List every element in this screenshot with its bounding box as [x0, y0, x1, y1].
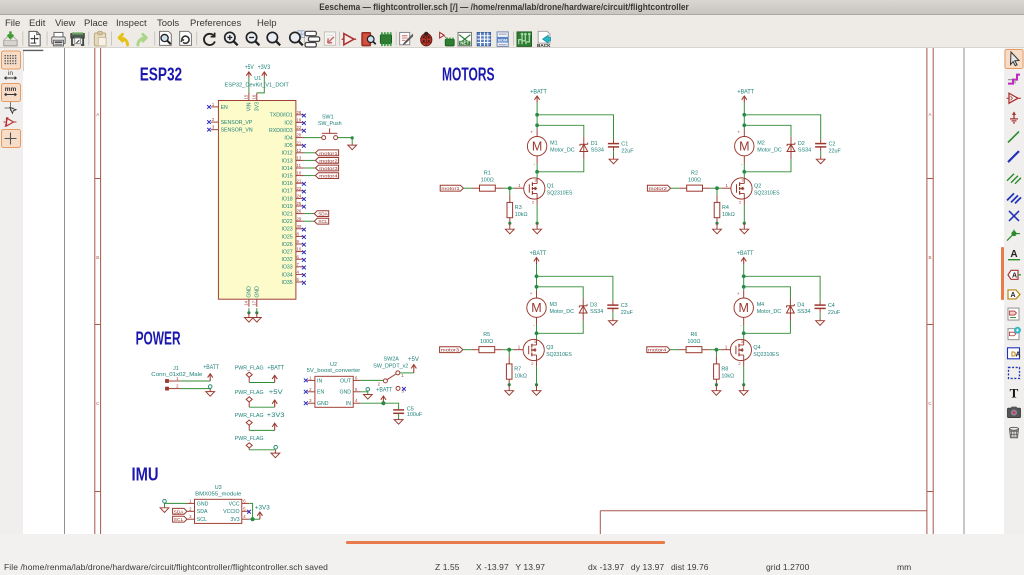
svg-text:1: 1 — [189, 498, 192, 503]
wire motor2 label to R2 — [671, 187, 687, 189]
svg-text:3: 3 — [534, 177, 536, 182]
svg-text:100uF: 100uF — [407, 412, 423, 418]
svg-text:motor1: motor1 — [319, 151, 338, 157]
wire motor3 label to R5 — [463, 349, 479, 351]
svg-text:10kΩ: 10kΩ — [722, 212, 735, 218]
svg-text:+: + — [530, 131, 533, 136]
svg-text:2: 2 — [189, 506, 192, 511]
ground below Q3 — [532, 385, 541, 396]
svg-text:C2: C2 — [829, 141, 836, 147]
svg-text:U2: U2 — [330, 362, 337, 368]
ground below Q4 — [739, 385, 748, 396]
power flag PWR_FLAG #2 — [235, 390, 264, 407]
wire Q2 source to ground — [743, 199, 746, 225]
wire Q1 source to ground — [536, 199, 539, 225]
junction +BATT/D2 node (motor 2) — [742, 123, 746, 127]
ground below C3 (motor 3) — [609, 318, 618, 325]
svg-text:2: 2 — [176, 384, 179, 389]
svg-text:TXD0/IO1: TXD0/IO1 — [270, 113, 293, 119]
svg-text:+: + — [737, 131, 740, 136]
wire +BATT rail motor 2 — [744, 103, 820, 145]
svg-text:IMU: IMU — [132, 464, 159, 484]
ground PWR_FLAG #4 — [271, 450, 280, 458]
no-connects U1 right pins — [302, 114, 306, 285]
transistor Q2 SQ2310ES — [731, 177, 780, 204]
svg-text:VCCIO: VCCIO — [223, 509, 239, 515]
motor M4 Motor_DC — [734, 292, 781, 329]
wire U3 VCC to +3V3 node — [249, 503, 252, 519]
svg-text:21: 21 — [297, 140, 302, 145]
svg-text:Motor_DC: Motor_DC — [550, 309, 575, 315]
svg-text:SCL: SCL — [318, 219, 328, 225]
junction +BATT/C1 node (motor 1) — [535, 113, 539, 117]
svg-text:3V3: 3V3 — [230, 517, 239, 523]
svg-text:A: A — [1016, 351, 1021, 358]
global label motor4 (driver) — [647, 347, 670, 354]
svg-text:IO34: IO34 — [281, 272, 292, 278]
svg-text:M3: M3 — [550, 302, 558, 308]
svg-text:3: 3 — [742, 177, 744, 182]
svg-text:1: 1 — [309, 375, 312, 380]
wire Q3 source to ground — [535, 361, 538, 387]
svg-text:+3V3: +3V3 — [255, 505, 270, 512]
svg-text:M: M — [531, 301, 541, 315]
junction motor/Q1 drain node — [535, 170, 539, 174]
junction +BATT/C4 node (motor 4) — [742, 274, 746, 278]
svg-text:R2: R2 — [691, 170, 698, 176]
svg-text:OUT: OUT — [340, 378, 352, 384]
wire +5V to U1 VIN pin — [248, 78, 250, 93]
svg-text:SW2A: SW2A — [384, 356, 400, 362]
wire D2 to motor bottom (motor 2) — [744, 152, 791, 172]
wire PWR_FLAG #1 to +BATT — [249, 382, 275, 384]
svg-text:9: 9 — [297, 239, 300, 244]
svg-text:22: 22 — [297, 125, 302, 130]
svg-text:M: M — [738, 301, 748, 315]
wire U1 IO14 to motor3 label — [304, 167, 316, 169]
svg-text:22uF: 22uF — [828, 310, 841, 316]
global label SDA (IMU) — [173, 508, 187, 515]
svg-text:IO27: IO27 — [281, 250, 292, 256]
connector J1 Conn_01x02_Male — [151, 366, 202, 390]
wire SW1 to ground — [338, 136, 354, 144]
wire U1 IO15 to motor4 label — [304, 175, 316, 177]
svg-text:motor4: motor4 — [648, 348, 667, 354]
global label motor2 (ESP32) — [315, 158, 338, 165]
section label MOTORS — [442, 64, 495, 84]
svg-text:2: 2 — [212, 117, 215, 122]
svg-text:100Ω: 100Ω — [480, 339, 493, 345]
svg-text:Motor_DC: Motor_DC — [550, 147, 575, 153]
svg-text:IO12: IO12 — [281, 151, 292, 157]
global label motor1 (ESP32) — [315, 150, 338, 157]
power +BATT (flag #1) — [267, 364, 284, 382]
global label motor1 (driver) — [440, 185, 463, 192]
svg-text:IO17: IO17 — [281, 189, 292, 195]
svg-text:IO14: IO14 — [281, 166, 292, 172]
wire motor4 label to R6 — [670, 349, 686, 351]
svg-text:+: + — [737, 292, 740, 297]
svg-text:IN: IN — [317, 378, 322, 384]
svg-text:5V_boost_converter: 5V_boost_converter — [307, 368, 361, 374]
junction motor/Q4 drain node — [742, 331, 746, 335]
svg-text:M: M — [532, 140, 542, 154]
power flag PWR_FLAG #4 — [235, 436, 264, 450]
svg-text:IN: IN — [346, 401, 351, 407]
wire J1 pin2 to ground — [180, 385, 212, 389]
svg-text:C: C — [96, 401, 100, 406]
svg-text:11: 11 — [297, 163, 302, 168]
resistor R3 10kΩ (motor 1) — [507, 202, 528, 218]
svg-text:IO23: IO23 — [281, 227, 292, 233]
section label POWER — [136, 329, 181, 349]
svg-text:A: A — [1012, 272, 1017, 279]
svg-text:6: 6 — [243, 498, 246, 503]
svg-text:IO21: IO21 — [281, 212, 292, 218]
svg-text:5: 5 — [355, 387, 358, 392]
power flag PWR_FLAG #1 — [235, 365, 264, 382]
wire R5 to Q3 gate — [495, 344, 523, 349]
svg-text:+3V3: +3V3 — [267, 412, 285, 419]
svg-text:SS34: SS34 — [798, 148, 811, 154]
IC U3 BMX055_module — [187, 485, 249, 523]
svg-text:1: 1 — [401, 373, 404, 378]
svg-text:motor3: motor3 — [319, 166, 338, 172]
wire motor bottom to Q2 drain — [743, 156, 745, 178]
svg-text:SW1: SW1 — [322, 114, 334, 120]
svg-text:3: 3 — [741, 339, 743, 344]
power +5V (flag #2) — [269, 389, 284, 407]
wire motor bottom to Q3 drain — [536, 317, 538, 339]
svg-text:ESP32: ESP32 — [140, 64, 182, 84]
wire +BATT rail motor 1 — [537, 103, 613, 145]
svg-text:IO4: IO4 — [284, 136, 292, 142]
svg-text:SQ2310ES: SQ2310ES — [753, 352, 779, 358]
svg-text:SQ2310ES: SQ2310ES — [547, 191, 573, 197]
sheet frame — [65, 48, 965, 535]
no-connect U3 VCCIO pin — [247, 510, 251, 514]
svg-text:Q1: Q1 — [547, 184, 554, 190]
svg-text:4: 4 — [297, 270, 300, 275]
svg-text:13: 13 — [297, 156, 302, 161]
svg-text:IO13: IO13 — [281, 158, 292, 164]
svg-text:VIN: VIN — [247, 102, 253, 111]
section label IMU — [132, 464, 159, 484]
junction motor/Q2 drain node — [742, 170, 746, 174]
svg-text:3: 3 — [309, 398, 312, 403]
power flag PWR_FLAG #3 — [235, 413, 264, 430]
wire U1 IO22 to SCL label — [304, 220, 315, 222]
svg-text:R4: R4 — [722, 205, 729, 211]
svg-text:30: 30 — [297, 224, 302, 229]
svg-text:M2: M2 — [757, 141, 765, 147]
wire Q4 source to ground — [742, 361, 745, 387]
svg-text:motor1: motor1 — [441, 186, 460, 192]
svg-text:SS34: SS34 — [591, 148, 604, 154]
wire U2 GND pin to ground — [361, 388, 370, 395]
svg-text:100Ω: 100Ω — [687, 339, 700, 345]
svg-text:+BATT: +BATT — [267, 364, 284, 371]
svg-text:Q2: Q2 — [754, 184, 761, 190]
svg-text:BOM: BOM — [498, 37, 508, 42]
svg-text:+BATT: +BATT — [376, 387, 392, 394]
svg-text:A: A — [1010, 292, 1015, 299]
global label SCL (IMU) — [173, 516, 187, 523]
svg-text:+BATT: +BATT — [203, 364, 219, 371]
ground after SW1 — [348, 145, 357, 150]
diode D3 SS34 (motor 3) — [579, 302, 603, 315]
resistor R5 100Ω (motor 3) — [479, 332, 495, 353]
wire gate node to R3 (motor 1) — [509, 188, 511, 202]
svg-text:19: 19 — [297, 118, 302, 123]
svg-text:+BATT: +BATT — [530, 88, 547, 95]
svg-text:26: 26 — [297, 209, 302, 214]
resistor R1 100Ω (motor 1) — [480, 170, 496, 191]
svg-text:2: 2 — [378, 381, 381, 386]
ground below R7 (motor 3) — [505, 385, 514, 396]
svg-text:6: 6 — [355, 375, 358, 380]
svg-text:17: 17 — [251, 300, 256, 305]
power +BATT (motor 4) — [737, 250, 754, 264]
diode D1 SS34 (motor 1) — [580, 141, 604, 154]
wire gate node to R8 (motor 4) — [715, 350, 717, 364]
svg-text:IO5: IO5 — [284, 143, 292, 149]
svg-text:IO26: IO26 — [281, 242, 292, 248]
svg-text:+: + — [530, 292, 533, 297]
ground below R4 (motor 2) — [713, 223, 722, 234]
capacitor C4 22uF (motor 4) — [815, 303, 841, 318]
svg-text:29: 29 — [297, 216, 302, 221]
wire R6 to Q4 gate — [702, 344, 730, 349]
ground below Q2 — [740, 223, 749, 234]
svg-text:motor2: motor2 — [649, 186, 668, 192]
ground below C2 (motor 2) — [816, 157, 825, 164]
no-connects U1 left pins — [207, 105, 211, 131]
svg-text:4: 4 — [243, 514, 246, 519]
svg-text:Motor_DC: Motor_DC — [757, 309, 782, 315]
wire gate node to R4 (motor 2) — [716, 188, 718, 202]
global label motor3 (driver) — [440, 347, 463, 354]
svg-text:3: 3 — [189, 514, 192, 519]
ground below C1 (motor 1) — [609, 157, 618, 164]
svg-text:R7: R7 — [514, 366, 521, 372]
svg-text:R1: R1 — [484, 170, 491, 176]
motor M2 Motor_DC — [735, 131, 782, 168]
junction +BATT/D3 node (motor 3) — [535, 285, 539, 289]
svg-text:22uF: 22uF — [621, 148, 634, 154]
wire PWR_FLAG #2 to +5V — [249, 406, 275, 408]
svg-text:D1: D1 — [591, 141, 598, 147]
motor M1 Motor_DC — [527, 131, 574, 168]
svg-text:10kΩ: 10kΩ — [721, 373, 734, 379]
svg-text:6: 6 — [297, 254, 300, 259]
svg-text:10kΩ: 10kΩ — [515, 212, 528, 218]
svg-text:IO33: IO33 — [281, 265, 292, 271]
svg-text:-: - — [740, 324, 742, 329]
global label motor2 (driver) — [647, 185, 670, 192]
wire SW2A to +5V — [400, 372, 414, 374]
svg-text:-: - — [534, 163, 536, 168]
svg-text:A: A — [96, 112, 99, 117]
svg-text:SQ2310ES: SQ2310ES — [754, 191, 780, 197]
svg-text:+3V3: +3V3 — [258, 64, 271, 71]
svg-text:A: A — [1010, 249, 1017, 260]
wire R4 to ground (motor 2) — [715, 218, 718, 225]
svg-text:IO35: IO35 — [281, 280, 292, 286]
svg-text:R5: R5 — [483, 332, 490, 338]
ground below R3 (motor 1) — [505, 223, 514, 234]
svg-text:IO22: IO22 — [281, 219, 292, 225]
wire U1 IO12 to motor1 label — [304, 152, 316, 154]
svg-text:IO32: IO32 — [281, 257, 292, 263]
svg-text:IO16: IO16 — [281, 181, 292, 187]
svg-text:SQ2310ES: SQ2310ES — [546, 352, 572, 358]
wire U1 IO4 to SW1 — [304, 137, 322, 139]
svg-text:motor2: motor2 — [319, 158, 338, 164]
ground U3 GND pin — [160, 507, 169, 512]
svg-text:1: 1 — [518, 344, 521, 349]
svg-text:IO18: IO18 — [281, 196, 292, 202]
svg-text:IO2: IO2 — [284, 120, 292, 126]
power +5V — [245, 64, 254, 78]
junction gate/R3 node (motor 1) — [508, 186, 512, 190]
global label SDA (ESP32) — [314, 211, 328, 218]
svg-text:10kΩ: 10kΩ — [514, 373, 527, 379]
wire U2 OUT to SW2A — [361, 379, 384, 381]
svg-text:SDA: SDA — [197, 509, 208, 515]
capacitor C1 22uF (motor 1) — [608, 141, 634, 156]
resistor R8 10kΩ (motor 4) — [714, 364, 735, 380]
svg-text:PWR_FLAG: PWR_FLAG — [235, 436, 264, 442]
svg-text:SENSOR_VP: SENSOR_VP — [221, 120, 253, 126]
motor M3 Motor_DC — [527, 292, 574, 329]
svg-text:5: 5 — [297, 277, 300, 282]
svg-text:+BATT: +BATT — [737, 250, 754, 257]
svg-text:SS34: SS34 — [797, 309, 810, 315]
transistor Q1 SQ2310ES — [524, 177, 573, 204]
svg-text:GND: GND — [247, 286, 253, 298]
wires U1 GND pins to ground — [247, 308, 258, 314]
svg-text:+BATT: +BATT — [737, 88, 754, 95]
svg-text:1: 1 — [212, 102, 215, 107]
svg-text:+5V: +5V — [408, 356, 420, 363]
wire U3 GND to ground — [163, 499, 187, 507]
wire D4 to motor bottom (motor 4) — [744, 313, 791, 333]
svg-text:22: 22 — [297, 186, 302, 191]
no-connect SW2A pin 3 — [402, 387, 406, 391]
wire motor1 label to R1 — [463, 187, 479, 189]
svg-text:SW_DPDT_x2: SW_DPDT_x2 — [373, 363, 408, 369]
svg-text:EN: EN — [317, 390, 324, 396]
ground below C4 (motor 4) — [816, 318, 825, 325]
resistor R4 10kΩ (motor 2) — [714, 202, 735, 218]
svg-text:RXD0/IO3: RXD0/IO3 — [269, 128, 293, 134]
svg-text:3: 3 — [212, 125, 215, 130]
svg-text:21: 21 — [297, 178, 302, 183]
ground J1 pin2 — [206, 389, 215, 397]
svg-text:PWR_FLAG: PWR_FLAG — [235, 365, 264, 371]
svg-text:1: 1 — [726, 183, 729, 188]
svg-text:IO15: IO15 — [281, 174, 292, 180]
svg-text:D3: D3 — [590, 302, 597, 308]
svg-text:motor4: motor4 — [319, 174, 338, 180]
svg-text:EN: EN — [221, 105, 228, 111]
svg-text:24: 24 — [297, 194, 302, 199]
svg-text:R8: R8 — [721, 366, 728, 372]
svg-text:GND: GND — [317, 401, 329, 407]
svg-text:PWR_FLAG: PWR_FLAG — [235, 390, 264, 396]
svg-text:SW_Push: SW_Push — [318, 121, 342, 127]
global label motor3 (ESP32) — [315, 165, 338, 172]
svg-text:25: 25 — [297, 201, 302, 206]
svg-text:C: C — [928, 401, 932, 406]
svg-text:BMX055_module: BMX055_module — [195, 492, 241, 498]
wire +BATT rail motor 4 — [744, 264, 820, 306]
wire PWR_FLAG #4 to ground — [249, 445, 277, 449]
wire motor bottom to Q4 drain — [743, 317, 745, 339]
power +3V3 — [258, 64, 271, 78]
svg-text:R6: R6 — [690, 332, 697, 338]
junction motor/Q3 drain node — [535, 331, 539, 335]
svg-text:SS34: SS34 — [590, 309, 603, 315]
svg-text:22uF: 22uF — [829, 148, 842, 154]
svg-text:15: 15 — [244, 94, 249, 99]
svg-text:SCL: SCL — [174, 517, 184, 523]
wire PWR_FLAG #3 to +3V3 — [249, 429, 275, 431]
svg-text:IO19: IO19 — [281, 204, 292, 210]
svg-text:U3: U3 — [215, 485, 222, 491]
resistor R2 100Ω (motor 2) — [687, 170, 703, 191]
svg-text:POWER: POWER — [136, 329, 181, 349]
svg-text:10: 10 — [297, 247, 302, 252]
wire R8 to ground (motor 4) — [715, 379, 718, 386]
junction gate/R7 node (motor 3) — [507, 348, 511, 352]
svg-text:2: 2 — [739, 199, 741, 204]
junction VCC/3V3 node — [251, 517, 255, 521]
svg-text:mm: mm — [5, 86, 17, 93]
ground below Q1 — [533, 223, 542, 234]
svg-text:T: T — [1010, 386, 1019, 401]
svg-text:VCC: VCC — [229, 501, 240, 507]
wire R1 to Q1 gate — [495, 183, 523, 188]
global label motor4 (ESP32) — [315, 173, 338, 180]
svg-text:Q4: Q4 — [753, 345, 760, 351]
wire motor bottom to Q1 drain — [536, 156, 538, 178]
svg-text:3: 3 — [534, 339, 536, 344]
power +3V3 (flag #3) — [267, 412, 285, 430]
svg-text:C4: C4 — [828, 303, 835, 309]
svg-text:5: 5 — [243, 506, 246, 511]
capacitor C3 22uF (motor 3) — [607, 303, 633, 318]
junction +BATT/D1 node (motor 1) — [535, 123, 539, 127]
svg-text:M4: M4 — [757, 302, 765, 308]
wire U3 3V3 pin to +3V3 — [249, 518, 260, 520]
transistor Q4 SQ2310ES — [730, 339, 779, 366]
junction +BATT/C2 node (motor 2) — [742, 113, 746, 117]
svg-text:NET: NET — [460, 41, 469, 46]
svg-text:M: M — [739, 140, 749, 154]
switch SW1 SW_Push — [318, 114, 342, 139]
svg-text:MOTORS: MOTORS — [442, 64, 495, 84]
power +BATT (motor 2) — [737, 88, 754, 102]
svg-text:10: 10 — [297, 171, 302, 176]
svg-text:2: 2 — [309, 387, 312, 392]
svg-text:in: in — [8, 70, 13, 77]
resistor R6 100Ω (motor 4) — [686, 332, 702, 353]
svg-text:SCL: SCL — [197, 517, 207, 523]
wire U1 IO21 to SDA label — [304, 213, 315, 215]
svg-text:100Ω: 100Ω — [481, 177, 494, 183]
